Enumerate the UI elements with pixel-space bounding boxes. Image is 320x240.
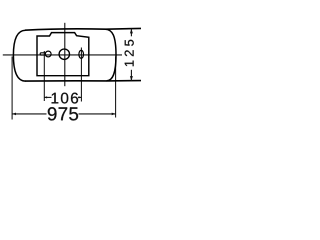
arrowhead 125 top [130,29,133,34]
dimension line 125 top segment [130,29,132,37]
vertical centerline [64,23,66,86]
center circle [59,49,69,59]
dimension text 125 (rotated) [125,40,134,66]
keyhole circle [45,51,51,57]
dimension line 125 bottom segment [130,70,132,81]
body top edge with 125 top extension line [25,28,141,30]
arrowhead 975 left [12,113,16,116]
arrowhead 975 right [112,113,116,116]
oval hole [79,50,84,58]
arrowhead 106 right [79,96,82,98]
arrowhead 125 bottom [130,76,133,81]
extension line 975 right [115,57,117,118]
keyhole slot [40,53,46,55]
body left end cap arc [13,30,25,81]
horizontal centerline [3,54,122,56]
dimension line 975 left segment [12,113,46,115]
dimension line 106 left stub [44,96,51,98]
arrowhead 106 left [44,96,47,98]
dimension text 106 [52,93,78,104]
extension line 106 right (oval) [80,48,82,102]
mounting plate outline [37,33,89,76]
body right end cap arc [106,29,117,81]
dimension line 975 right segment [79,113,116,115]
dimension line 106 right stub [78,96,81,98]
dimension text 975 [48,107,78,120]
extension line 106 left (keyhole) [43,51,45,101]
extension line 975 left [11,57,13,120]
body bottom edge with 125 bottom extension line [25,80,141,83]
